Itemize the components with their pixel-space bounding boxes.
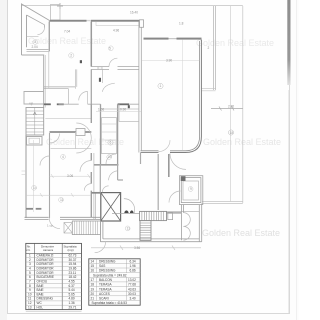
- svg-text:ACCES: ACCES: [99, 292, 110, 296]
- bathroom block: [179, 176, 202, 205]
- light wall segment to interior: [59, 103, 101, 105]
- niche left of wall: [24, 92, 44, 105]
- hall wall left of door: [141, 151, 159, 153]
- terrace right edge: [242, 6, 244, 203]
- entrance door arc bottom-left of lower block: [95, 242, 106, 253]
- svg-text:SAS: SAS: [99, 264, 105, 268]
- door arc above shaft: [102, 186, 108, 192]
- svg-text:up: up: [30, 102, 34, 106]
- dressing right wall: [75, 69, 77, 88]
- door arc small room: [109, 171, 118, 180]
- door blob dining: [128, 105, 130, 108]
- lower-right room walls (double): [100, 204, 201, 242]
- svg-text:29.71: 29.71: [69, 305, 77, 309]
- door arc lower left room 2: [84, 184, 91, 191]
- svg-text:(mp): (mp): [68, 248, 74, 252]
- svg-text:43.63: 43.63: [128, 287, 136, 291]
- stairs flight vertical (down): [140, 221, 151, 241]
- stairs flight horizontal (mid): [140, 211, 167, 220]
- upper wall right segment: [144, 38, 202, 40]
- room4 interior line: [51, 148, 92, 150]
- svg-text:6: 6: [110, 141, 112, 145]
- wall strip left of shaft: [94, 193, 96, 220]
- svg-text:20: 20: [91, 292, 95, 296]
- svg-text:3.90: 3.90: [166, 59, 172, 63]
- dark wall segment right of kitchen top: [118, 103, 129, 105]
- window marks left wall: [22, 171, 27, 175]
- svg-text:2: 2: [70, 54, 72, 58]
- dimension line kitchen: [96, 111, 141, 113]
- living room dim lines: [142, 40, 200, 150]
- svg-text:19: 19: [91, 287, 95, 291]
- door arc corridor: [79, 92, 88, 105]
- terrace mid vertical: [230, 6, 232, 202]
- bottom wall door arc: [49, 218, 60, 229]
- interior partition with double swing: [181, 205, 183, 240]
- main right wall with curved corner (outer face): [170, 40, 201, 153]
- corridor upper divider: [102, 69, 104, 83]
- outer wall step left: [22, 55, 44, 108]
- bedroom2 bottom wall (double): [44, 87, 76, 89]
- bedroom2 left inner line: [48, 50, 50, 89]
- svg-text:SCARI: SCARI: [99, 297, 109, 301]
- exterior stairs hatch: [72, 221, 100, 235]
- svg-text:77.68: 77.68: [128, 283, 136, 287]
- svg-text:0.90: 0.90: [120, 108, 126, 112]
- terrace wall verticals top right: [214, 6, 216, 90]
- small wall box: [98, 67, 102, 69]
- svg-text:16: 16: [91, 269, 95, 273]
- terrace bottom double line: [202, 202, 243, 204]
- shower dark box: [181, 176, 186, 181]
- svg-text:Golden Real Estate: Golden Real Estate: [202, 228, 280, 238]
- svg-text:3: 3: [34, 40, 36, 44]
- svg-text:6.86: 6.86: [130, 269, 136, 273]
- door leaf blobs (dark): [124, 210, 128, 213]
- svg-text:3.40: 3.40: [130, 297, 136, 301]
- dimension tick cross top: [57, 3, 63, 9]
- tiny dimension texts: [30, 11, 235, 251]
- bath door arc: [169, 191, 181, 203]
- radiator bars: [26, 208, 33, 210]
- stairs arrow: [33, 112, 36, 115]
- column at top wall step: [140, 20, 144, 28]
- dimension line room4: [50, 174, 92, 178]
- svg-text:Suprafata totala = 416.53: Suprafata totala = 416.53: [92, 301, 128, 305]
- door gap arc in strip wall: [40, 156, 50, 166]
- outer right faint line: [295, 0, 298, 320]
- X shaft box: [101, 193, 121, 221]
- left strip inner wall: [49, 133, 51, 218]
- room4 interior vertical: [75, 132, 77, 149]
- svg-text:13.02: 13.02: [128, 278, 136, 282]
- door arc room5: [109, 58, 117, 66]
- main right wall inner face: [170, 41, 200, 151]
- corridor door blob: [99, 78, 101, 82]
- dimension line left-bottom: [26, 193, 91, 197]
- wc fixtures: [64, 223, 72, 234]
- svg-text:TERASA: TERASA: [99, 283, 112, 287]
- strip dim vertical: [33, 140, 35, 212]
- svg-text:camera: camera: [43, 248, 53, 252]
- svg-text:OFICIU: OFICIU: [37, 279, 48, 283]
- svg-text:1 cp: 1 cp: [47, 224, 53, 228]
- svg-text:9: 9: [190, 187, 192, 191]
- svg-text:Suprafata utila = 249.82: Suprafata utila = 249.82: [93, 273, 127, 277]
- svg-text:1.8: 1.8: [179, 22, 184, 26]
- chimney box above top wall: [51, 5, 61, 21]
- dimension line top: [22, 5, 243, 7]
- left block interior vertical: [90, 104, 92, 217]
- svg-text:6.34: 6.34: [130, 260, 136, 264]
- corridor line right of stairs: [45, 117, 91, 119]
- svg-text:16.40: 16.40: [130, 11, 138, 15]
- svg-text:7: 7: [29, 279, 31, 283]
- svg-text:4.55: 4.55: [69, 279, 75, 283]
- svg-text:2.80: 2.80: [228, 105, 234, 109]
- svg-text:4: 4: [62, 155, 64, 159]
- dark wall segment: [44, 103, 51, 105]
- hall line above stairs: [139, 210, 199, 212]
- small room above shaft walls: [100, 164, 123, 192]
- elevator box below stairs: [27, 137, 43, 146]
- window gap in top wall: [87, 20, 92, 22]
- column notch in room4 top wall: [76, 129, 85, 136]
- door arc lower left room: [80, 161, 91, 172]
- window gap right segment: [169, 37, 177, 39]
- closet partition top: [96, 22, 139, 26]
- svg-text:21: 21: [91, 297, 95, 301]
- lower-left wall right face: [93, 153, 95, 219]
- interior vertical below bedroom5: [90, 69, 92, 104]
- svg-text:18: 18: [91, 283, 95, 287]
- svg-text:3.56: 3.56: [134, 246, 140, 250]
- door arc lower-right of hall: [170, 153, 186, 169]
- right edge shadow bar: [287, 0, 290, 85]
- room4 top wall: [50, 131, 92, 133]
- svg-text:1.96: 1.96: [130, 264, 136, 268]
- french doors arcs kitchen-left: [76, 123, 91, 153]
- trapezoid room top-left: [22, 4, 50, 55]
- svg-text:4.96: 4.96: [113, 29, 119, 33]
- corridor door arc: [102, 83, 115, 92]
- door arc above blobs: [124, 199, 135, 213]
- dimension line bottom: [91, 246, 201, 251]
- room4 door arc: [50, 134, 60, 144]
- svg-text:3.06: 3.06: [67, 174, 73, 178]
- svg-text:17: 17: [91, 278, 95, 282]
- wall segment left of bath: [168, 154, 170, 177]
- svg-text:13: 13: [28, 305, 32, 309]
- kitchen door arc: [106, 154, 116, 164]
- room number labels (circled): [33, 40, 233, 231]
- svg-text:BALCON: BALCON: [99, 278, 113, 282]
- left wall inner face: [44, 55, 46, 108]
- step connector wall: [100, 219, 103, 241]
- svg-text:15: 15: [91, 264, 95, 268]
- svg-text:crt.: crt.: [26, 248, 30, 252]
- top exterior wall: [50, 20, 140, 22]
- interior wall vertical (living/left rooms): [90, 22, 92, 67]
- svg-text:1.06: 1.06: [98, 108, 104, 112]
- wall above shaft: [91, 192, 101, 194]
- kitchen block walls: [94, 104, 119, 165]
- trapezoid room door arc: [27, 28, 45, 37]
- door leaf blob: [80, 60, 82, 63]
- dining area lines: [101, 104, 139, 121]
- svg-text:TERASA: TERASA: [99, 287, 112, 291]
- stairs upper flight: [26, 108, 44, 136]
- interior wall horizontal double with door gap: [91, 67, 139, 70]
- corridor divider: [68, 89, 70, 105]
- svg-text:HOL: HOL: [37, 305, 44, 309]
- bottom-left room bottom wall (double): [25, 217, 101, 219]
- svg-text:30.03: 30.03: [128, 292, 136, 296]
- terrace horizontal lines: [202, 88, 216, 91]
- terrace dimension line: [211, 107, 243, 111]
- svg-text:2: 2: [208, 46, 210, 50]
- svg-text:7.04: 7.04: [64, 30, 70, 34]
- bathtub: [183, 181, 199, 200]
- wall line under blobs: [112, 212, 140, 214]
- hall door arc (swing up): [159, 140, 171, 152]
- svg-text:Golden Real Estate: Golden Real Estate: [203, 137, 281, 147]
- left outer wall lower: [25, 135, 27, 218]
- svg-text:1: 1: [160, 84, 162, 88]
- hall lower walls: [141, 153, 159, 210]
- svg-text:14: 14: [91, 260, 95, 264]
- svg-text:DRESSING: DRESSING: [99, 260, 116, 264]
- small box right of stairs: [168, 212, 173, 219]
- bedroom5 right wall double: [139, 22, 141, 153]
- svg-text:Golden Real Estate: Golden Real Estate: [28, 36, 106, 46]
- swing arcs: [183, 213, 190, 241]
- wall band left of partition: [167, 212, 182, 214]
- svg-text:2.04: 2.04: [32, 45, 38, 49]
- svg-text:DRESSING: DRESSING: [99, 269, 116, 273]
